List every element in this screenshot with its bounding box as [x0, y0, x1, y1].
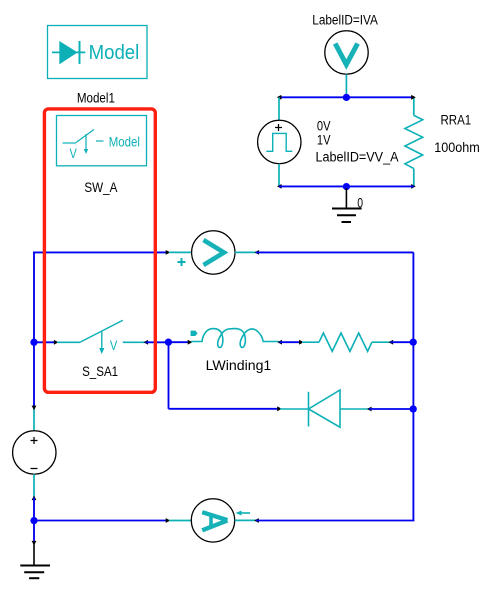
- svg-text:Model: Model: [89, 42, 140, 64]
- node junction right switch row: [410, 339, 417, 346]
- wire between inductor and resistor: [279, 341, 301, 343]
- terminal arrow: [254, 518, 259, 523]
- wire top horizontal right: [256, 251, 413, 253]
- terminal arrow: [277, 406, 282, 411]
- ground 0 (RRA1 circuit): [332, 188, 362, 222]
- svg-text:SW_A: SW_A: [84, 180, 117, 195]
- ground bottom left: [20, 521, 50, 579]
- wire bottom of RRA1 circuit: [279, 185, 414, 187]
- node junction diode row: [410, 405, 417, 412]
- inductor LWinding1: [191, 329, 280, 348]
- terminal arrow: [299, 340, 304, 345]
- svg-text:V: V: [110, 338, 118, 353]
- switch S_SA1: [57, 320, 145, 354]
- wire diode row right: [369, 408, 413, 410]
- diode freewheeling: [280, 390, 369, 427]
- voltage probe VP1: [169, 231, 257, 274]
- svg-text:Model: Model: [109, 135, 140, 150]
- dc voltage source VDC1: [13, 406, 56, 501]
- terminal arrow: [277, 95, 282, 100]
- terminal arrow: [389, 340, 394, 345]
- svg-text:RRA1: RRA1: [441, 113, 472, 128]
- wire left vertical: [33, 252, 35, 408]
- terminal arrow: [54, 340, 59, 345]
- wire switch row left: [34, 341, 57, 343]
- current direction arrow: [236, 511, 251, 516]
- svg-text:0: 0: [357, 196, 363, 211]
- node junction bottom: [343, 183, 350, 190]
- terminal arrow: [255, 250, 260, 255]
- wire bottom row right: [256, 520, 414, 522]
- terminal arrow: [277, 340, 282, 345]
- resistor winding row: [302, 333, 390, 351]
- terminal arrow: [188, 340, 193, 345]
- wire right vertical: [412, 252, 414, 520]
- terminal arrow: [166, 250, 171, 255]
- svg-text:V: V: [70, 146, 77, 161]
- terminal arrow: [166, 518, 171, 523]
- svg-text:100ohm: 100ohm: [434, 140, 480, 155]
- wire below source: [33, 498, 35, 521]
- wire vertical to diode row: [168, 342, 170, 409]
- wire top of RRA1 circuit: [279, 96, 414, 98]
- subcircuit model block Model1: [48, 26, 148, 79]
- node junction bottom left: [30, 517, 37, 524]
- pulse voltage source VV_A: [258, 97, 301, 189]
- voltmeter IVA: [325, 31, 368, 98]
- wire top horizontal left: [33, 251, 168, 253]
- svg-text:Model1: Model1: [77, 91, 115, 106]
- wire switch row right: [146, 341, 169, 343]
- red annotation box: [44, 109, 155, 392]
- terminal arrow: [144, 340, 149, 345]
- terminal arrow: [367, 407, 372, 412]
- svg-text:LabelID=VV_A: LabelID=VV_A: [316, 149, 399, 164]
- svg-text:1V: 1V: [317, 132, 331, 147]
- wire to inductor: [168, 341, 190, 343]
- node junction top: [343, 94, 350, 101]
- svg-text:LWinding1: LWinding1: [206, 358, 272, 373]
- svg-text:S_SA1: S_SA1: [82, 364, 118, 379]
- node junction mid: [165, 339, 172, 346]
- svg-text:LabelID=IVA: LabelID=IVA: [312, 13, 378, 28]
- ammeter A1: [169, 499, 256, 542]
- wire resistor to right rail: [391, 341, 414, 343]
- resistor RRA1: [405, 95, 423, 189]
- node junction left switch row: [30, 339, 37, 346]
- wire diode row left: [169, 408, 280, 410]
- wire bottom row left: [34, 520, 168, 522]
- switch model block SW_A: [57, 116, 147, 166]
